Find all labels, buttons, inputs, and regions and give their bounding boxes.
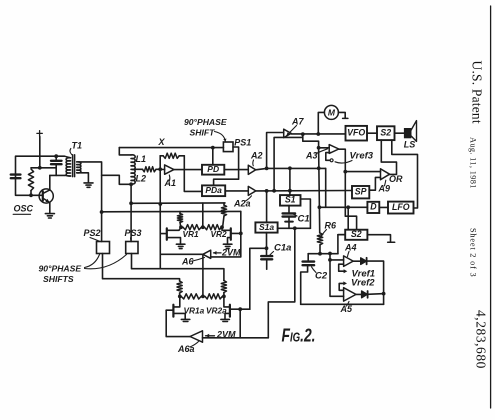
wire bottom rail C2 to diode loop: [301, 303, 384, 305]
svg-text:VR1a: VR1a: [184, 306, 205, 316]
wire S2-lower feed: [347, 207, 349, 229]
label VR1: [183, 229, 200, 239]
box PS2: [97, 242, 110, 254]
ground tick below VR2a: [221, 319, 230, 321]
wire S1a bottom: [266, 233, 268, 249]
wire PS1 output to PDa top: [214, 147, 239, 185]
op-amp A1: [165, 165, 174, 174]
wire T1 secondary bottom to ground: [79, 173, 89, 183]
svg-text:S1: S1: [285, 195, 296, 205]
node L2 bottom junction: [129, 182, 133, 186]
motor M: [324, 105, 338, 119]
loudspeaker LS: [405, 121, 417, 142]
svg-text:A3: A3: [305, 151, 318, 161]
resistor R-PDa drop: [221, 203, 226, 227]
sidebar text sheet: [469, 228, 478, 277]
ground tick below VR1a: [181, 319, 190, 321]
svg-text:OSC: OSC: [14, 204, 34, 214]
wire PS2 tap to VR gate line: [102, 210, 241, 212]
label A5 with leader: [340, 302, 353, 315]
wire A1 feedback riser: [159, 156, 161, 170]
resistor R-osc (bias): [28, 169, 33, 195]
wire T1 secondary top to PS2/PS3 drop: [79, 162, 102, 242]
svg-text:A9: A9: [378, 184, 391, 194]
svg-text:90°PHASE: 90°PHASE: [39, 263, 82, 273]
op-amp A4: [344, 256, 354, 267]
wire SP output to A9: [369, 177, 380, 190]
label A2a with leader: [233, 196, 252, 209]
svg-text:PS3: PS3: [125, 228, 142, 238]
label C1 with leader: [293, 214, 310, 225]
wire M right terminal: [338, 112, 348, 118]
svg-text:VFO: VFO: [347, 128, 365, 138]
svg-text:A7: A7: [291, 116, 304, 126]
label PS2 with leader: [84, 228, 101, 241]
svg-text:S2: S2: [351, 229, 362, 239]
wire S2 to LS: [395, 132, 405, 134]
node A4 input junction: [328, 258, 332, 262]
wire D to LFO: [379, 206, 388, 208]
node bias junction: [38, 166, 42, 170]
capacitor C1: [283, 206, 296, 229]
wire VR2 gate to A6 input: [211, 233, 241, 257]
svg-text:2VM: 2VM: [216, 329, 236, 339]
wire A4 Vref1 input: [339, 264, 348, 273]
label FIG.2.: [282, 326, 316, 346]
node lower attenuator mid: [201, 295, 205, 299]
wire M branch: [318, 112, 324, 134]
op-amp A6 (points left): [203, 250, 211, 258]
wire X line from coil top to PS1: [119, 148, 131, 155]
wire A4 feed: [329, 254, 331, 260]
svg-text:A2a: A2a: [233, 199, 251, 209]
wire A1 input stub: [160, 168, 164, 170]
label Vref2: [351, 278, 375, 289]
wire bus to A3: [319, 147, 330, 149]
wire C1 node down and left to A6a loop: [268, 228, 295, 337]
wire C1 bottom rail: [278, 227, 311, 229]
wire X horizontal: [119, 147, 223, 149]
label VR2: [211, 229, 228, 239]
wire branch to L2 bottom node: [102, 175, 130, 184]
svg-text:LS: LS: [404, 139, 416, 149]
node VR2 gate: [239, 232, 243, 236]
wire top rail from left rail to T1 primary top: [16, 156, 65, 178]
wire PS2 bottom to VR1a resistor: [103, 254, 180, 282]
svg-text:PS2: PS2: [84, 228, 101, 238]
node A2 out to A7 riser: [265, 167, 269, 171]
ground below T1 secondary: [84, 183, 93, 187]
node attenuator mid: [201, 225, 205, 229]
svg-text:M: M: [328, 107, 336, 117]
node VR2a gate: [238, 307, 242, 311]
sidebar text patent number: [474, 310, 489, 369]
wire S2 upper right drop to LFO: [392, 140, 418, 208]
wire A3 output down to S2 lower: [339, 149, 357, 230]
node bus D-wire tee: [318, 205, 322, 209]
svg-text:Vref2: Vref2: [351, 278, 375, 289]
label C2 with leader: [312, 267, 328, 282]
wire S1a node left to VR2a gate: [250, 248, 267, 309]
svg-text:Sheet 2 of 3: Sheet 2 of 3: [469, 228, 478, 277]
wire feedback right leg down to PDa input: [184, 156, 202, 192]
label A7 with leader: [287, 116, 305, 135]
wire S1 riser: [289, 168, 291, 195]
resistor R6: [317, 233, 322, 254]
svg-text:VR1: VR1: [183, 229, 200, 239]
label 90&#176;PHASE SHIFT: [184, 117, 227, 137]
resistor R-h1 (VR1-VR2 left): [183, 225, 201, 230]
label 2VM lower: [216, 329, 236, 339]
node X to PD junction: [211, 146, 215, 150]
capacitor C2: [301, 254, 314, 305]
node A4 feed tee: [328, 252, 332, 256]
svg-text:A6a: A6a: [177, 344, 195, 354]
wire bias node to resistor top and to capacitor branch: [31, 167, 56, 169]
svg-text:LFO: LFO: [392, 202, 410, 212]
capacitor C-osc2 (bypass at T1 primary): [51, 156, 62, 175]
node A3 input on bus: [317, 146, 321, 150]
node PS3 tap: [129, 201, 133, 205]
node D2 loop junction: [382, 292, 386, 296]
wire VR2a gate to C1a riser: [240, 308, 250, 310]
label OSC underlined: [13, 204, 33, 215]
label C1a with leader: [269, 243, 291, 257]
diode D1: [361, 258, 367, 265]
wire A9 output up to S2 upper: [381, 140, 396, 174]
svg-text:90°PHASE: 90°PHASE: [184, 117, 227, 127]
label PS3 with leader: [125, 228, 142, 241]
op-amp A9 (OR): [381, 169, 390, 180]
box PS1: [223, 142, 233, 152]
svg-text:4,283,680: 4,283,680: [474, 310, 489, 369]
wire VR2 gate drop: [240, 211, 242, 233]
wire A3-out node to A9 input: [345, 171, 380, 173]
wire S1 right loop: [301, 199, 311, 228]
diode D2: [362, 291, 368, 298]
svg-text:Vref3: Vref3: [350, 150, 374, 161]
box PS3: [126, 242, 138, 254]
svg-text:SHIFTS: SHIFTS: [43, 274, 74, 284]
sidebar text date: [469, 137, 478, 189]
wire A2a output to SP: [256, 190, 352, 192]
inductor L1 L2 tapped coil: [131, 155, 135, 184]
wire riser from A2a up to A7-out jog: [274, 134, 303, 191]
node capacitor top on rail: [54, 154, 58, 158]
wire A6 tip drop to lower attenuator: [202, 254, 204, 296]
op-amp A2: [248, 165, 255, 174]
box LFO: [388, 202, 414, 214]
label A1 with leader: [164, 175, 177, 188]
resistor R-fb across A1: [160, 153, 184, 158]
box SP: [352, 186, 369, 198]
svg-text:T1: T1: [72, 141, 83, 151]
transformer T1 secondary winding: [77, 162, 81, 173]
svg-text:R6: R6: [325, 220, 337, 230]
node VR1 drain junction: [179, 225, 183, 229]
node C1 rail junction: [293, 226, 297, 230]
wire Q1 emitter to ground: [49, 203, 51, 214]
resistor R-VR1a top: [177, 281, 182, 296]
node A7 out jog junction: [301, 132, 305, 136]
svg-text:PD: PD: [207, 164, 219, 174]
svg-text:A2: A2: [250, 151, 263, 161]
label A3 with leader: [305, 149, 328, 161]
leaders from SHIFTS to PS2 and PS3: [85, 255, 127, 269]
transistor Q1 (oscillator, NPN): [39, 189, 53, 203]
svg-text:U.S. Patent: U.S. Patent: [469, 61, 484, 124]
wire A1 bus: [159, 169, 161, 268]
transistor Q1 collector wire: [49, 175, 51, 190]
wire A7 output to VFO: [291, 133, 345, 135]
svg-text:C1a: C1a: [274, 243, 291, 254]
wire A6 output loop to VR1 gate: [160, 253, 203, 255]
wire VR1a gate loop from A6a output: [166, 310, 190, 336]
label Vref1: [352, 269, 376, 280]
transformer T1 core: [73, 155, 75, 177]
node R6 bottom: [318, 252, 322, 256]
node A1 input: [158, 167, 162, 171]
node A2a to S1a drop: [265, 189, 269, 193]
wire A2 branch down: [325, 168, 327, 207]
wire A4 output to diode D1: [353, 260, 361, 262]
svg-text:L1: L1: [136, 154, 147, 164]
wire L2 bottom down to PS3: [130, 184, 132, 241]
box S1: [280, 195, 301, 206]
svg-text:C1: C1: [298, 214, 310, 225]
svg-text:L2: L2: [136, 174, 147, 184]
svg-text:A4: A4: [344, 242, 357, 252]
wire A2 output: [256, 168, 326, 169]
wire mid riser to VR1-VR2 node: [202, 203, 204, 227]
wire from B+ down to bias node: [39, 137, 41, 168]
box S2 lower: [345, 229, 367, 240]
box VFO: [346, 126, 368, 141]
FET VR2: [222, 227, 241, 244]
label LS: [404, 139, 416, 149]
op-amp A2a: [248, 186, 256, 195]
label Vref3 with leader: [335, 150, 374, 163]
leader from SHIFT to PS1: [215, 132, 227, 142]
label A2 with leader: [250, 151, 263, 166]
node junction resistor-bottom on base wire: [29, 193, 33, 197]
svg-text:S1a: S1a: [259, 222, 274, 232]
label A6a with leader: [177, 342, 199, 354]
box PDa: [202, 185, 225, 196]
wire A5 lower input: [330, 260, 344, 296]
wire jog from A7-out to R6 bus: [303, 134, 319, 148]
label OR: [389, 174, 403, 184]
sidebar text U.S. Patent: [469, 61, 484, 124]
wire S1a drop: [266, 191, 268, 223]
svg-text:SP: SP: [355, 187, 367, 197]
wire rail corner up to S2 lower left: [338, 235, 345, 254]
svg-text:Aug. 11, 1981: Aug. 11, 1981: [469, 137, 478, 189]
svg-text:X: X: [158, 137, 166, 147]
label A6 with leader: [181, 256, 205, 266]
wire A5 output to diode D2: [356, 293, 362, 295]
label L2: [136, 174, 147, 184]
label A4 with leader: [344, 242, 357, 256]
label T1 with leader: [70, 141, 82, 155]
node M drop junction: [316, 132, 320, 136]
B+ terminal plus sign: [37, 131, 42, 136]
capacitor C1a: [261, 248, 272, 269]
FET VR2a: [224, 296, 240, 319]
node S2-lower drop tee: [346, 205, 350, 209]
wire PDa output to A2a: [225, 190, 248, 192]
svg-text:PDa: PDa: [205, 185, 222, 195]
wire A4 input: [330, 259, 344, 261]
box S2 upper: [377, 126, 395, 140]
label 90&#176;PHASE SHIFTS: [39, 263, 82, 284]
node A2a to S1 drop: [288, 189, 292, 193]
node S1a-C1a junction: [265, 246, 269, 250]
ground below VR1: [176, 244, 185, 248]
wire A1 output to PD: [174, 169, 202, 171]
label VR1a: [184, 306, 205, 316]
svg-text:C2: C2: [315, 271, 328, 282]
resistor R-h1a (lower left): [181, 294, 201, 299]
node A1 bus crossing: [158, 202, 162, 206]
resistor R-VR2a top: [221, 281, 226, 297]
ground below VR2: [223, 244, 232, 248]
op-amp A7: [284, 129, 292, 137]
wire VR2a gate down to A6a input: [239, 309, 241, 338]
annotation arrow 2VM at A6a: [206, 334, 215, 338]
wire S2 lower right terminal: [367, 235, 394, 243]
ground below Q1 emitter: [45, 214, 54, 218]
wire left rail bottom to transistor base: [16, 178, 43, 195]
label 2VM: [221, 247, 241, 257]
box D: [367, 202, 379, 213]
FET VR1a: [166, 296, 185, 319]
svg-text:SHIFT: SHIFT: [190, 127, 216, 137]
wire A6a input line: [203, 337, 269, 339]
wire collector rail to T1 primary bottom: [50, 174, 65, 176]
op-amp A5: [344, 288, 356, 301]
wire coil centre tap to A1 input resistor: [134, 168, 143, 170]
wire R6 bottom rail: [308, 253, 338, 255]
box S1a: [255, 222, 277, 233]
resistor R-h2 (VR1-VR2 right): [205, 225, 222, 230]
op-amp A3: [329, 145, 339, 154]
wire R6 bus vertical: [319, 148, 320, 233]
node VR1a drain: [178, 295, 182, 299]
resistor R-tap (series to A1): [143, 167, 161, 172]
resistor R-h2a (lower right): [205, 294, 222, 299]
capacitor C-osc1 (left, in series with left rail): [11, 175, 21, 179]
node A3-out to A9 junction: [343, 170, 347, 174]
wire PS3 bottom to VR2a resistor: [132, 254, 224, 281]
box PD: [202, 164, 224, 175]
node VR2 drain junction: [220, 225, 224, 229]
wire X down to PD box: [212, 148, 214, 165]
label PS1: [234, 138, 251, 148]
node VR2a drain: [222, 295, 226, 299]
svg-text:PS1: PS1: [234, 138, 251, 148]
label A9 with leader: [378, 180, 391, 193]
sidebar rule: [490, 6, 492, 408]
svg-text:D: D: [370, 202, 377, 212]
FET VR1: [160, 227, 181, 244]
wire D1 to loop: [367, 261, 384, 304]
wire A5 Vref2 input: [339, 281, 347, 290]
label R6 with leader: [322, 220, 337, 236]
label L1: [136, 154, 147, 164]
resistor R-VR1 top drop: [177, 212, 182, 228]
op-amp A6a (points left): [190, 331, 203, 342]
wire PS3 tap line: [131, 202, 225, 204]
label VR2a: [206, 306, 227, 316]
annotation arrow 2VM at A6: [213, 251, 221, 255]
transformer T1 primary winding: [65, 156, 71, 176]
svg-text:OR: OR: [389, 174, 403, 184]
svg-text:2VM: 2VM: [221, 247, 241, 257]
wire S2 lower left lead: [338, 234, 345, 236]
wire A3 Vref input with open node: [326, 153, 333, 162]
label X: [158, 137, 166, 147]
node A2 out on R6 bus: [317, 166, 321, 170]
node A2 out to S1 riser: [288, 166, 292, 170]
wire PD output to A2: [224, 169, 248, 171]
node PS2 horizontal tap: [100, 210, 104, 214]
node A2a riser junction: [272, 189, 276, 193]
wire D2 to loop: [368, 293, 384, 296]
wire D input line: [319, 206, 367, 208]
svg-text:S2: S2: [380, 128, 391, 138]
wire VFO to S2: [367, 132, 377, 134]
wire A2 out up to A7 input: [267, 133, 284, 169]
